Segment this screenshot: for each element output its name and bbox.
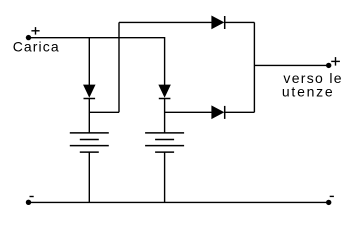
- node: Carica + input terminal dot: [26, 35, 31, 40]
- label: + polarity at output terminal: [331, 57, 340, 66]
- wire: riser from B1 branch up to top rail: [118, 22, 120, 112]
- svg-text:utenze: utenze: [282, 84, 335, 100]
- diode D4 (output diode battery 2, points right): [212, 106, 225, 119]
- wire: top rail left segment to D3 anode: [119, 21, 212, 23]
- wire: vertical from Carica rail down to D1 anode: [88, 38, 90, 87]
- wire: branch from B1 node right toward top-rail riser: [89, 111, 119, 113]
- wire: battery B1 negative lead to bottom rail: [88, 152, 90, 202]
- label: - polarity left: [30, 196, 34, 198]
- svg-text:Carica: Carica: [13, 38, 60, 54]
- wire: branch from B2 node right to D4 anode: [165, 111, 212, 113]
- wire: output branch to utenze terminal: [254, 64, 328, 66]
- wire: battery B2 negative lead to bottom rail: [164, 152, 166, 202]
- wire: top rail right segment from D3 cathode: [225, 21, 255, 23]
- wire: bottom negative rail: [29, 201, 329, 203]
- label: - polarity right: [330, 195, 334, 197]
- node: negative terminal dot left: [26, 200, 31, 205]
- node: verso le utenze + output terminal dot: [326, 63, 331, 68]
- node: negative terminal dot right: [326, 200, 331, 205]
- battery B1 (multicell): [70, 133, 109, 152]
- diode D1 (charge diode, points down): [84, 85, 96, 99]
- diode D3 (output diode battery 1, points right): [212, 16, 225, 29]
- label: + polarity at Carica terminal: [31, 27, 39, 34]
- wire: D4 cathode to right drop: [225, 111, 255, 113]
- wire: vertical from Carica rail down to D2 anode: [164, 37, 166, 86]
- wire: Carica rail horizontal: [29, 37, 165, 39]
- wire: right drop from top rail down to D4 cathode wire: [253, 22, 255, 112]
- diode D2 (charge diode, points down): [159, 85, 171, 99]
- wire: D2 cathode down to battery B2 positive plate: [164, 99, 166, 134]
- battery B2 (multicell): [145, 133, 184, 152]
- wire: D1 cathode down to battery B1 positive plate: [88, 99, 90, 134]
